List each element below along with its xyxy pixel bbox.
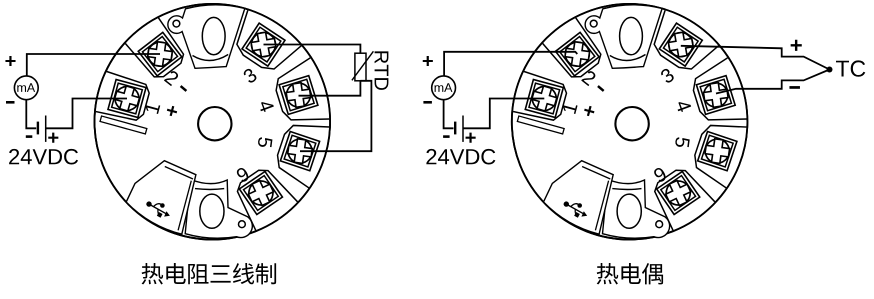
terminal boss 3 bbox=[640, 0, 727, 81]
terminal number 2 bbox=[581, 69, 597, 86]
terminal boss 4 bbox=[269, 53, 338, 134]
wire: battery + to terminal 1 bbox=[463, 99, 544, 129]
terminal screw 6 bbox=[239, 171, 282, 214]
label - (mA negative) bbox=[423, 101, 432, 104]
top oval hole bbox=[202, 17, 225, 54]
wire: RTD bottom to terminal 4 bbox=[299, 81, 361, 96]
top wedge interior contour bbox=[610, 55, 646, 61]
node TC junction dot bbox=[827, 67, 833, 73]
label + (battery positive) bbox=[48, 133, 58, 143]
top oval hole bbox=[620, 17, 643, 54]
caption: RTD three-wire (Chinese) bbox=[142, 263, 164, 284]
top terminal-block wedge with mounting lobe bbox=[168, 5, 245, 68]
terminal number 2 bbox=[164, 69, 180, 86]
wire: mA - to battery bbox=[26, 100, 36, 129]
terminal boss 5 bbox=[687, 111, 758, 194]
polarity mark + at terminal 1 bbox=[583, 105, 595, 117]
USB access door bbox=[544, 161, 614, 235]
terminal number 4 bbox=[675, 99, 691, 113]
label + (TC positive) bbox=[791, 40, 802, 51]
terminal number 1 bbox=[562, 102, 578, 114]
resistor RTD body bbox=[355, 53, 366, 81]
head outline re-stroke bbox=[95, 4, 331, 240]
label + (battery positive) bbox=[466, 133, 476, 143]
top wedge interior contour bbox=[193, 55, 229, 61]
terminal number 3 bbox=[242, 67, 258, 84]
milliammeter mA bbox=[14, 76, 38, 100]
USB door inner contour (top edge) bbox=[582, 167, 610, 180]
label + (mA positive) bbox=[423, 56, 433, 66]
terminal boss 6 bbox=[646, 162, 717, 233]
wire: battery + to terminal 1 bbox=[46, 99, 127, 129]
battery negative plate (short) bbox=[37, 122, 39, 135]
label - (TC negative) bbox=[789, 86, 800, 89]
wire: mA meter + to terminal 2 (left) bbox=[27, 54, 160, 76]
USB door inner contour (right edge) bbox=[178, 181, 191, 231]
wire: terminal 4 to TC - bbox=[716, 70, 830, 94]
terminal screw 1 bbox=[108, 79, 146, 117]
terminal screw 3 bbox=[658, 21, 704, 67]
USB icon bbox=[564, 201, 588, 217]
transmitter head outline (RTD diagram) bbox=[95, 4, 331, 240]
USB access door bbox=[126, 161, 196, 235]
terminal boss 4 bbox=[686, 53, 755, 134]
terminal screw 6 bbox=[657, 171, 700, 214]
wire: mA meter + to terminal 2 (right) bbox=[444, 52, 577, 76]
bottom small screw hole bbox=[656, 221, 663, 228]
label - (mA negative) bbox=[6, 101, 15, 104]
transmitter head outline (TC diagram) bbox=[512, 4, 748, 240]
terminal screw 1 bbox=[525, 79, 563, 117]
wire: terminal 3 to TC + bbox=[681, 46, 830, 70]
terminal screw 3 bbox=[240, 21, 286, 67]
terminal boss 1 bbox=[509, 70, 569, 124]
head outline re-stroke bbox=[512, 4, 748, 240]
terminal number 1 bbox=[145, 102, 161, 114]
label slot below terminal 1 bbox=[517, 116, 564, 134]
bottom oval hole bbox=[617, 194, 641, 228]
terminal screw 4 bbox=[696, 76, 735, 115]
terminal number 6 bbox=[653, 166, 668, 183]
center hub circle bbox=[198, 107, 231, 140]
wire: RTD bottom branch to terminal 5 bbox=[300, 81, 371, 151]
terminal boss 3 bbox=[223, 0, 310, 81]
terminal screw 2 bbox=[137, 31, 184, 78]
top small screw hole bbox=[173, 20, 180, 27]
terminal screw 5 bbox=[698, 131, 737, 170]
top small screw hole bbox=[590, 20, 597, 27]
caption: thermocouple (Chinese) bbox=[597, 263, 619, 284]
bottom terminal-block wedge with mounting lobe bbox=[603, 180, 670, 239]
bottom oval hole bbox=[200, 194, 224, 228]
polarity mark - at terminal 2 bbox=[180, 85, 187, 92]
battery positive plate (long) bbox=[45, 116, 47, 142]
label TC bbox=[836, 60, 865, 76]
terminal number 5 bbox=[675, 137, 690, 148]
bottom wedge interior contour bbox=[612, 188, 641, 191]
label 24VDC bbox=[426, 149, 495, 165]
polarity mark - at terminal 2 bbox=[597, 85, 604, 92]
label + (mA positive) bbox=[5, 56, 15, 66]
polarity mark + at terminal 1 bbox=[166, 105, 178, 117]
terminal number 6 bbox=[235, 166, 250, 183]
terminal boss 1 bbox=[92, 70, 152, 124]
USB door inner contour (top edge) bbox=[165, 167, 193, 180]
terminal number 4 bbox=[258, 99, 274, 113]
USB door inner contour (right edge) bbox=[595, 181, 608, 231]
terminal screw 2 bbox=[554, 31, 601, 78]
terminal boss 2 bbox=[542, 17, 606, 83]
terminal screw 4 bbox=[279, 76, 318, 115]
terminal boss 5 bbox=[270, 111, 341, 194]
terminal boss 2 bbox=[124, 17, 188, 83]
battery negative plate (short) bbox=[454, 122, 456, 135]
wire: mA - to battery bbox=[444, 100, 454, 129]
USB icon bbox=[146, 201, 170, 217]
label RTD bbox=[375, 51, 389, 89]
terminal screw 5 bbox=[280, 131, 319, 170]
battery positive plate (long) bbox=[462, 116, 464, 142]
terminal number 5 bbox=[257, 137, 272, 148]
bottom terminal-block wedge with mounting lobe bbox=[185, 180, 252, 239]
label - (battery negative) bbox=[26, 135, 33, 138]
bottom wedge interior contour bbox=[195, 188, 224, 191]
bottom small screw hole bbox=[239, 221, 246, 228]
label - (battery negative) bbox=[443, 135, 450, 138]
RTD diagonal strike bbox=[352, 51, 374, 80]
label 24VDC bbox=[9, 149, 78, 165]
wire: terminal 3 to RTD top bbox=[264, 45, 361, 54]
milliammeter mA bbox=[432, 76, 456, 100]
center hub circle bbox=[615, 107, 648, 140]
label slot below terminal 1 bbox=[100, 116, 147, 134]
top terminal-block wedge with mounting lobe bbox=[585, 5, 662, 68]
terminal number 3 bbox=[659, 67, 675, 84]
terminal boss 6 bbox=[228, 162, 299, 233]
